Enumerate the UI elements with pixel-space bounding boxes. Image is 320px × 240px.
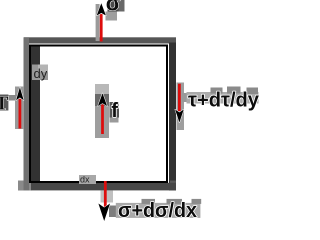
svg-text:dy: dy: [34, 66, 48, 81]
svg-text:f: f: [111, 100, 118, 122]
svg-text:σ+dσ/dx: σ+dσ/dx: [118, 200, 197, 222]
svg-text:σ: σ: [106, 0, 121, 16]
svg-text:dx: dx: [80, 175, 90, 185]
svg-text:T: T: [0, 93, 9, 115]
svg-text:τ+dτ/dy: τ+dτ/dy: [188, 90, 260, 112]
